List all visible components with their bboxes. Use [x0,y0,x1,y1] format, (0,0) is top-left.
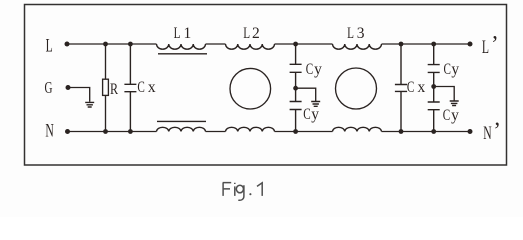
inductor L2 (bottom winding) [226,127,275,131]
svg-text:N: N [45,121,53,141]
core circle L2 [230,68,271,109]
caption Fig.1 [223,183,263,201]
wire L rail L3-L' [382,43,471,45]
svg-text:L: L [347,24,354,41]
wire N rail w2-node [275,131,333,133]
inductor L3 (top winding) [333,24,382,49]
capacitor Cy (upper middle) [290,44,323,88]
svg-text:C: C [407,78,414,95]
node top at Cx right [399,42,404,47]
svg-text:L: L [482,37,489,57]
node bottom at Cx right [399,129,404,134]
svg-text:R: R [110,82,119,99]
node bottom at Cy right [431,129,436,134]
svg-text:N: N [483,123,491,143]
wire mid right node to ground [434,87,455,101]
svg-text:L: L [243,24,250,41]
ground (right) [450,101,459,106]
svg-text:x: x [148,79,156,96]
svg-text:1: 1 [184,25,192,42]
node mid (between Cy) [293,86,298,91]
svg-text:C: C [443,106,450,123]
svg-text:y: y [451,61,459,78]
inductor L2 (top winding) [226,24,275,49]
wire G to ground [68,88,90,102]
wire N rail left [68,131,157,133]
svg-text:C: C [303,105,310,122]
inductor L1 (bottom winding) [157,127,206,131]
capacitor Cy (lower middle) [290,88,320,131]
terminal N' [468,118,501,144]
svg-text:’: ’ [493,118,501,143]
svg-text:G: G [45,79,53,98]
inductor L3 (bottom winding) [333,127,382,131]
wire L rail left [67,43,157,45]
core bar L1 bottom [157,120,206,122]
terminal G [45,79,71,98]
capacitor Cx (left) [124,44,155,132]
wire N rail w3-N' [382,131,471,133]
svg-text:C: C [137,78,144,95]
svg-text:2: 2 [252,25,260,42]
resistor R [103,44,119,132]
node top-mid [293,42,298,47]
inductor L1 (top winding) [157,24,206,49]
ground (G terminal) [85,102,94,107]
wire mid node to ground [296,88,316,101]
junction dot R bottom [103,129,108,134]
border frame [25,5,507,166]
core bar L1 top [158,53,207,55]
svg-text:L: L [174,24,181,41]
svg-text:y: y [451,107,459,124]
capacitor Cy (lower right) [428,87,459,132]
core circle L3 [336,68,377,109]
capacitor Cy (upper right) [428,44,460,87]
svg-text:L: L [46,36,53,56]
junction dot Cx bottom [128,129,133,134]
terminal L [46,36,70,56]
ground (middle) [311,102,320,107]
junction dot Cx top [128,42,133,47]
svg-text:C: C [444,60,451,77]
svg-text:’: ’ [491,32,499,57]
node mid right (between Cy) [431,84,436,89]
wire L rail L2-node [275,43,333,45]
terminal L' [468,32,499,58]
svg-text:y: y [314,61,322,78]
node top at Cy right [431,42,436,47]
wire N rail w1-w2 [206,131,226,133]
junction dot R top [103,42,108,47]
svg-text:x: x [418,79,426,96]
svg-text:y: y [311,106,319,123]
capacitor Cx (right) [395,44,426,132]
wire L rail L1-L2 [206,43,226,45]
svg-text:3: 3 [357,25,365,42]
node bottom-mid [293,129,298,134]
terminal N [45,121,70,141]
svg-text:C: C [306,60,313,77]
